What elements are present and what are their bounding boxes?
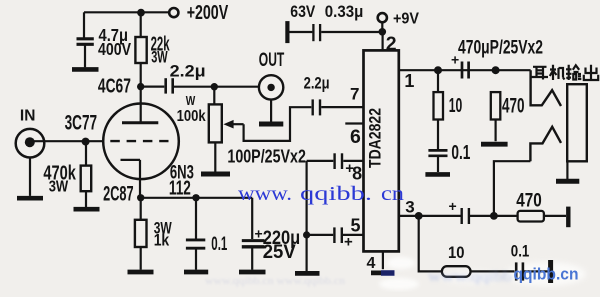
wire pin3 lower branch — [419, 216, 442, 272]
svg-text:2C87: 2C87 — [103, 182, 134, 205]
node pin5 junction — [303, 231, 310, 238]
svg-text:0.33μ: 0.33μ — [325, 2, 364, 21]
node pin1 b — [492, 66, 500, 74]
capacitor 0.1 pin1 — [428, 150, 447, 172]
capacitor 220u 25V — [242, 198, 265, 270]
wire top rail +200V — [84, 11, 169, 13]
node cathode-0.1 — [192, 194, 199, 201]
wire pin 2 — [382, 32, 384, 51]
resistor 470k 3W — [81, 141, 92, 207]
node +9V junction — [379, 28, 387, 36]
svg-text:3C77: 3C77 — [65, 112, 98, 135]
connector IN — [16, 129, 45, 158]
watermark center — [238, 183, 404, 205]
svg-text:3W: 3W — [151, 48, 168, 67]
terminal bar 470 pin3 — [566, 207, 570, 228]
ground OUT — [259, 122, 283, 127]
connector OUT — [259, 75, 283, 121]
terminal bar zobel — [548, 260, 553, 283]
headphone plug R — [530, 127, 561, 161]
resistor 470 pin3 — [518, 211, 566, 222]
resistor 1k 3W — [135, 198, 147, 270]
wire IN sleeve — [29, 158, 31, 196]
svg-text:8: 8 — [352, 163, 362, 183]
svg-text:+: + — [449, 198, 457, 214]
capacitor 0.1 cathode — [186, 198, 205, 270]
svg-text:3: 3 — [405, 198, 414, 217]
svg-text:1: 1 — [404, 71, 414, 91]
ground IN — [17, 196, 43, 201]
svg-text:www.qqibb: www.qqibb — [428, 269, 512, 285]
svg-text:qqibb.cn: qqibb.cn — [514, 266, 579, 284]
node cathode-1k — [137, 194, 144, 201]
headphone jack body — [567, 84, 587, 179]
capacitor 0.33u 63V — [287, 21, 382, 43]
resistor 10 pin1 — [434, 70, 444, 149]
svg-text:1k: 1k — [154, 231, 170, 250]
svg-text:W: W — [186, 93, 196, 108]
wire pin 1 — [399, 69, 531, 71]
svg-text:2.2μ: 2.2μ — [304, 73, 330, 92]
watermark artifact navy over pin4 ground — [381, 270, 395, 276]
op-amp U1 TDA2822 body — [364, 50, 399, 251]
svg-text:4: 4 — [367, 255, 376, 272]
svg-text:www.qqibb.cn www.qqibb.cn: www.qqibb.cn www.qqibb.cn — [205, 275, 346, 287]
svg-text:10: 10 — [448, 243, 465, 262]
capacitor 2.2u coupling A — [141, 78, 259, 93]
svg-text:+9V: +9V — [393, 11, 419, 28]
capacitor 0.1 zobel — [516, 262, 548, 280]
svg-text:6: 6 — [350, 126, 361, 148]
svg-text:cn: cn — [381, 183, 404, 205]
node pin3 b — [490, 212, 498, 220]
wire pin 3 — [399, 215, 461, 217]
svg-text:OUT: OUT — [259, 49, 285, 71]
svg-text:2.2μ: 2.2μ — [170, 63, 206, 81]
capacitor 470uP pin1 — [462, 62, 469, 79]
potentiometer W 100k — [209, 87, 244, 172]
svg-text:+: + — [255, 226, 263, 242]
tube V1 6N3 envelope — [103, 104, 179, 180]
capacitor 4.7u 400V — [77, 39, 94, 68]
capacitor 2.2u coupling B — [313, 99, 364, 115]
svg-text:470μP/25Vx2: 470μP/25Vx2 — [458, 36, 543, 58]
wire pin 4 — [382, 251, 384, 269]
ground 1k — [128, 270, 154, 275]
ground 4.7u — [72, 67, 99, 72]
label headphone output (CJK strokes) — [532, 65, 599, 80]
ground bypass line — [295, 271, 320, 276]
svg-text:2: 2 — [386, 33, 397, 55]
svg-text:63V: 63V — [290, 2, 316, 21]
svg-text:www.: www. — [238, 183, 292, 205]
svg-text:470: 470 — [502, 95, 525, 118]
terminal +9V — [378, 13, 387, 28]
capacitor 100P pin5 — [307, 227, 364, 243]
tube grid — [110, 140, 168, 142]
node top rail junction — [137, 9, 145, 17]
capacitor 470uP pin3 — [462, 208, 518, 224]
ground 220u — [239, 270, 266, 275]
svg-text:0.1: 0.1 — [451, 141, 470, 164]
tube cathode — [121, 160, 141, 198]
svg-text:100k: 100k — [177, 108, 206, 125]
pin 6 stub — [345, 122, 363, 124]
svg-text:7: 7 — [350, 85, 359, 104]
svg-text:IN: IN — [20, 107, 36, 124]
resistor 470 pin1 — [491, 92, 501, 141]
wire rail to C 4.7u — [83, 12, 85, 38]
svg-text:4C67: 4C67 — [98, 76, 131, 98]
watermark artifact white blobs — [379, 257, 586, 290]
svg-text:+200V: +200V — [187, 2, 229, 24]
svg-text:0.1: 0.1 — [211, 234, 227, 255]
node pin3 a — [415, 212, 423, 220]
wire cathode row — [140, 197, 252, 199]
resistor 10 zobel — [442, 266, 515, 277]
svg-text:10: 10 — [449, 94, 463, 117]
tube plate — [122, 121, 158, 124]
svg-text:112: 112 — [169, 178, 191, 200]
ground 470k — [74, 207, 100, 212]
ground 0.1 cathode — [184, 270, 208, 275]
terminal +200V — [169, 8, 178, 17]
node grid junction — [82, 138, 90, 146]
svg-text:25V: 25V — [263, 242, 296, 263]
svg-text:TDA2822: TDA2822 — [367, 108, 385, 168]
wire plug R to pin3 — [494, 161, 531, 216]
svg-text:qqibb.: qqibb. — [300, 183, 372, 205]
headphone plug L — [531, 70, 561, 106]
ground 100k — [201, 172, 230, 177]
ground pin 4 — [371, 270, 394, 275]
node pin1 a — [434, 66, 442, 74]
svg-text:+: + — [344, 234, 353, 251]
svg-text:5: 5 — [351, 215, 361, 235]
svg-text:0.1: 0.1 — [511, 241, 530, 260]
svg-text:470: 470 — [516, 191, 542, 212]
ground 470 pin1 — [481, 142, 508, 147]
node anode junction — [137, 83, 144, 90]
svg-text:3W: 3W — [49, 179, 69, 196]
ground jack — [556, 179, 579, 184]
svg-text:400V: 400V — [98, 39, 131, 59]
svg-text:100P/25Vx2: 100P/25Vx2 — [227, 147, 306, 167]
resistor 22k 3W — [135, 12, 146, 63]
wire 22k to plate — [140, 63, 142, 122]
ground 0.1 pin1 — [425, 172, 450, 177]
wire wiper to pin7 cap — [244, 107, 312, 141]
capacitor 100P pin8 — [307, 153, 364, 169]
wire IN to grid — [30, 140, 103, 142]
node out junction — [211, 83, 218, 90]
wire bypass ground line — [306, 161, 308, 272]
svg-text:+: + — [451, 52, 459, 68]
